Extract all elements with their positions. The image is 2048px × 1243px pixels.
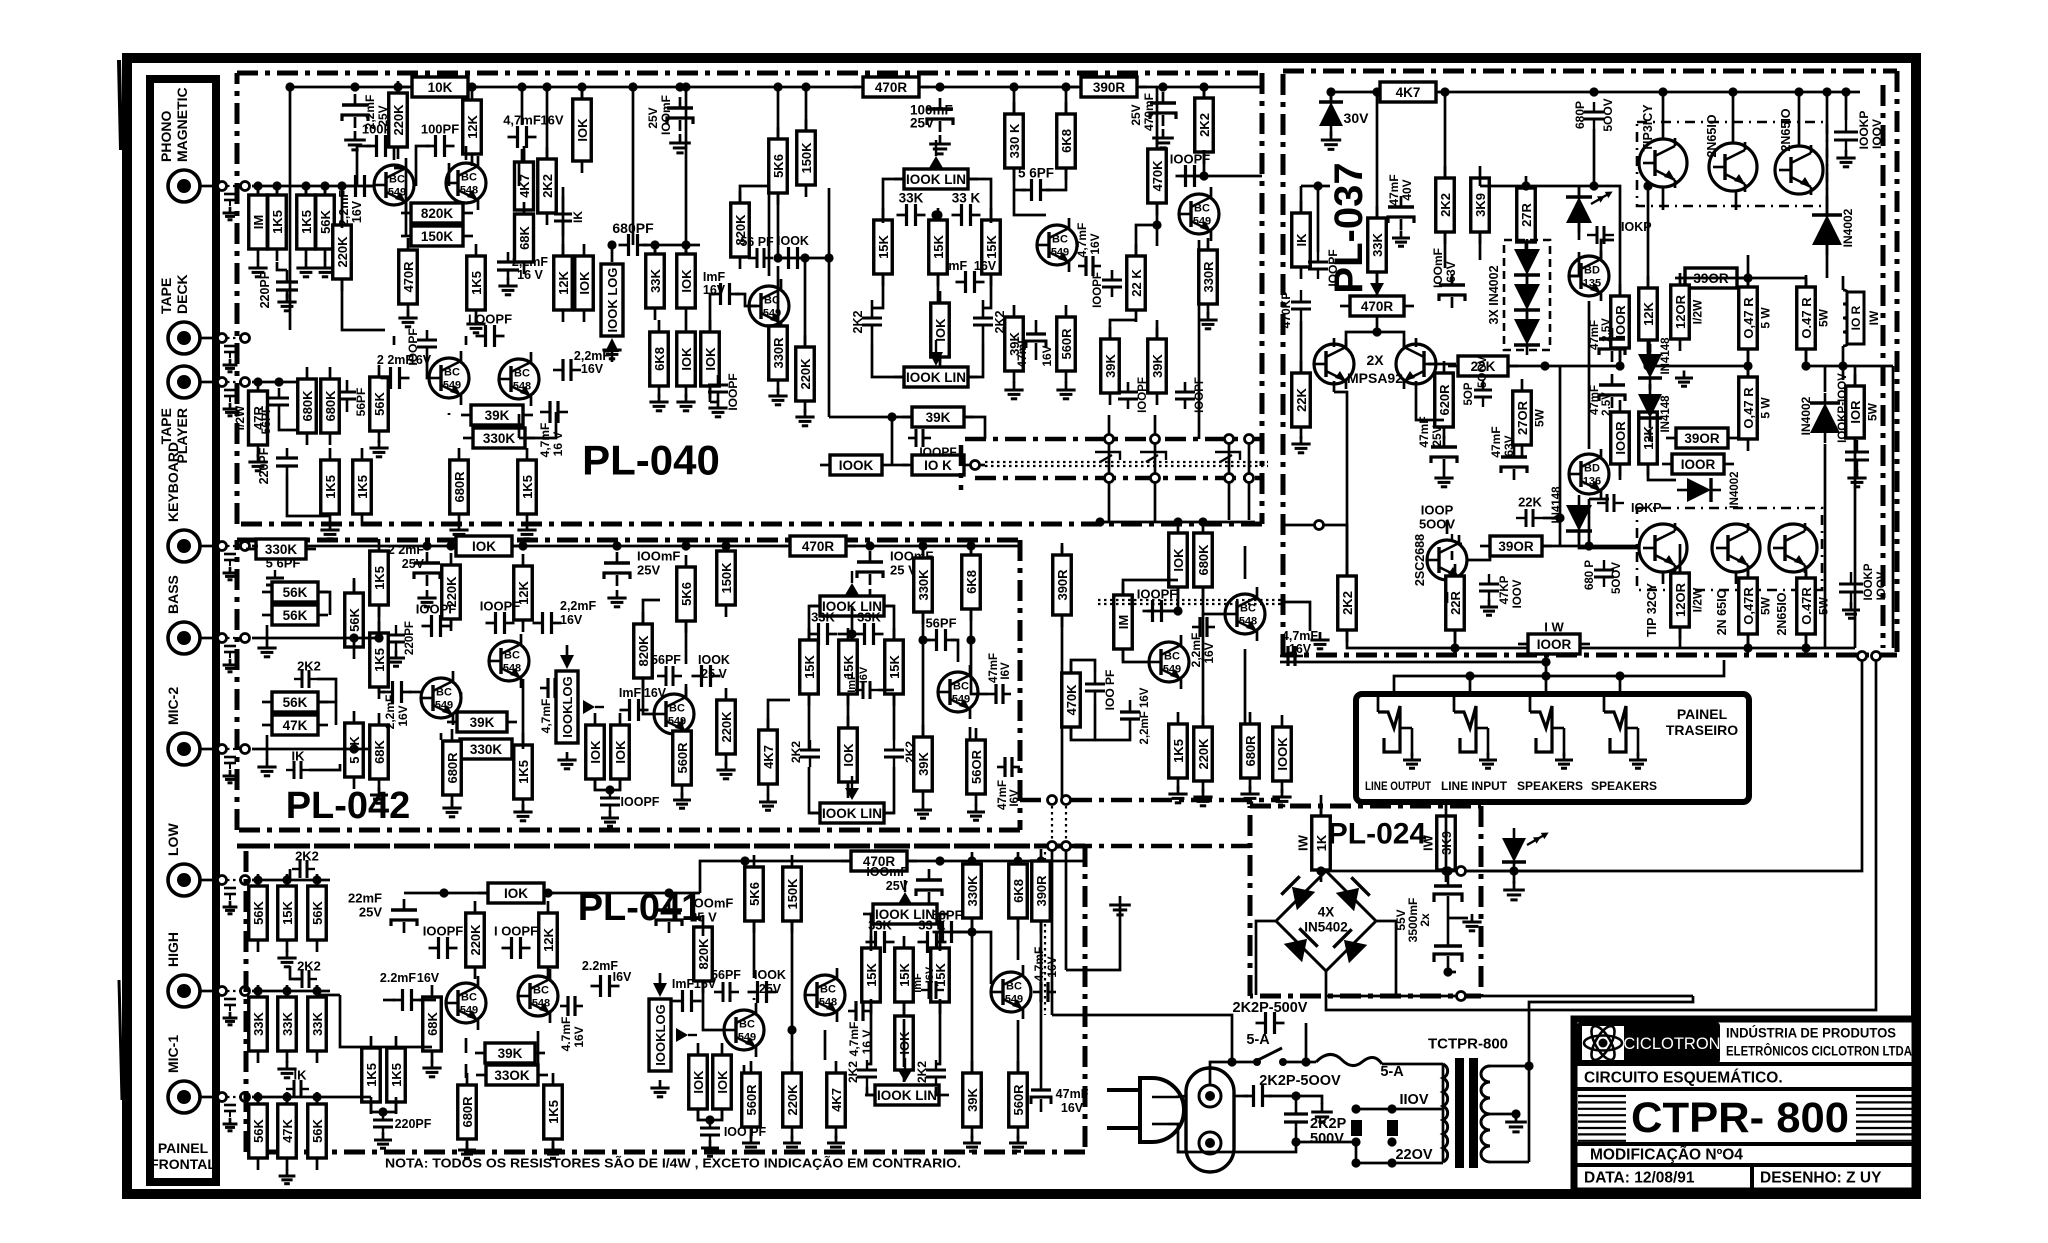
junction [681,541,690,550]
capacitor 56PF [925,616,956,652]
svg-text:220K: 220K [798,358,813,390]
resistor 470R [853,77,929,97]
connector pin [241,182,250,191]
resistor IOOR [1611,284,1630,360]
svg-text:220K: 220K [1196,738,1211,770]
wire [1845,92,1848,120]
resistor 39K [1101,327,1120,405]
arrow [898,880,912,904]
resistor 12K [463,88,482,166]
svg-text:2K2: 2K2 [846,1061,860,1083]
resistor 680R [450,448,469,526]
capacitor C1mF 16V [673,990,702,1012]
wire [937,932,991,984]
resistor 330K [450,739,522,759]
wire [1306,1061,1316,1064]
svg-text:BC: BC [533,985,549,997]
wire [892,464,908,467]
wire [968,343,983,377]
capacitor 47mF 16V [997,757,1020,777]
svg-text:4,7mF: 4,7mF [1032,947,1046,982]
wire [257,186,260,194]
junction [350,82,359,91]
resistor 390R [1053,543,1072,627]
wire [1355,1142,1358,1163]
ground [601,811,619,827]
svg-text:25V: 25V [1129,104,1143,125]
svg-text:2K2: 2K2 [789,741,803,763]
capacitor C4.7mF [508,126,537,148]
svg-text:56K: 56K [251,900,266,924]
resistor 15K [931,936,950,1014]
label PAINEL TRASEIRO [1666,706,1738,738]
transistor [1639,523,1687,573]
svg-text:BD: BD [1584,265,1600,277]
capacitor 4,7mF 16V [540,678,563,698]
wire [1747,278,1750,287]
wire [1428,363,1456,366]
resistor IOK [677,242,696,320]
svg-text:27R: 27R [1519,202,1534,226]
svg-text:549: 549 [388,187,406,199]
svg-text:12OR: 12OR [1673,294,1688,329]
wire [1180,150,1204,176]
resistor 15K [874,208,893,286]
resistor 39K [963,1061,982,1139]
junction [1095,517,1104,526]
wire [1140,86,1262,89]
svg-text:22K: 22K [1294,387,1309,411]
wire [1805,634,1808,648]
wire [1356,1162,1443,1165]
wire [1601,240,1614,259]
capacitor 10KP [1597,494,1624,512]
wire [1685,277,1748,280]
svg-text:548: 548 [532,998,550,1010]
svg-text:IOOPF: IOOPF [621,795,660,809]
resistor 56K [308,1092,327,1170]
junction [1372,87,1381,96]
junction [1443,967,1452,976]
svg-text:16V: 16V [1040,345,1054,366]
wire [685,684,688,699]
label KEYBOARD [165,442,181,522]
label PL-040 [582,437,720,484]
wire [378,606,381,630]
wire [1231,1023,1234,1062]
output transistor group boundary [1637,122,1827,206]
resistor 220K [717,688,736,766]
junction [966,635,975,644]
wire [838,633,854,636]
junction [1173,606,1182,615]
junction [1584,541,1593,550]
capacitor 33K [809,610,838,646]
svg-text:BC: BC [444,367,460,379]
resistor R1K 1W [1312,804,1331,882]
wire [1545,676,1548,694]
ground [315,260,334,277]
svg-text:12K: 12K [465,114,480,138]
title row divider [1574,1062,1915,1066]
input jack TAPE PLAYER [168,366,200,398]
wire [353,638,356,648]
svg-text:33K: 33K [648,268,663,292]
capacitor C2.2mF 16V [393,989,422,1011]
ground [422,1060,441,1077]
connector pin [1457,867,1466,876]
wire [1580,647,1680,650]
junction [378,1107,387,1116]
wire [1466,995,1693,998]
svg-text:680R: 680R [445,752,460,784]
wire [1300,321,1303,372]
svg-text:IK: IK [571,211,585,223]
wire [370,1097,373,1103]
wire [1268,1096,1322,1104]
svg-text:BC: BC [514,368,530,380]
bus [1071,798,1280,803]
resistor IOOK LIN [894,169,978,189]
junction [1440,87,1449,96]
wire [394,168,406,213]
wire [252,748,368,751]
capacitor 56PF [338,380,356,412]
svg-text:549: 549 [738,1032,756,1044]
wire [884,767,894,813]
transistor [1639,138,1687,188]
wire [257,1097,260,1104]
wire [1376,92,1379,217]
resistor IM [1114,583,1133,661]
svg-text:ImF: ImF [912,973,924,993]
resistor 330R [1199,238,1218,316]
wire [200,1096,216,1099]
capacitor 56PF [714,982,739,1002]
wire [342,280,385,330]
resistor IO K [902,455,974,475]
svg-text:549: 549 [435,700,453,712]
transistor BC549 [1037,218,1077,272]
label PHONO MAGNETIC [158,87,190,162]
junction [1009,82,1018,91]
wire [1469,676,1472,694]
svg-text:IOK: IOK [841,743,856,767]
svg-text:CIRCUITO ESQUEMÁTICO.: CIRCUITO ESQUEMÁTICO. [1584,1070,1783,1087]
resistor IOOR [1611,400,1630,476]
svg-text:33K: 33K [251,1011,266,1035]
ground [277,950,296,967]
ground [602,342,621,359]
wire [471,86,860,89]
junction [1589,87,1598,96]
svg-text:56PF: 56PF [711,968,741,982]
svg-text:390R: 390R [1055,569,1070,601]
wire [1448,917,1468,920]
transistor [1314,339,1354,389]
svg-text:2,2mF: 2,2mF [1189,633,1203,668]
junction [1199,171,1208,180]
resistor 5K6 [745,855,764,933]
label LINE OUTPUT [1365,779,1432,793]
wire [936,999,940,1064]
wire [1321,871,1326,873]
input jack BASS [168,622,200,654]
svg-text:MODIFICAÇÃO NºO4: MODIFICAÇÃO NºO4 [1590,1146,1743,1164]
label PL-042 [286,785,411,827]
model name CTPR-800 [1626,1094,1856,1142]
ground [513,804,532,821]
logo text CICLOTRON [1623,1035,1720,1053]
capacitor 22K [1516,509,1543,527]
svg-text:560R: 560R [1059,328,1074,360]
svg-text:DATA: 12/08/91: DATA: 12/08/91 [1584,1170,1695,1187]
svg-text:5OOV: 5OOV [1477,356,1489,388]
wire [1255,930,1258,995]
svg-text:BC: BC [504,650,520,662]
wire [1100,521,1255,524]
input jack TAPE DECK [168,322,200,354]
resistor 2K2 [538,147,557,225]
wire [1679,544,1682,572]
wire [1648,430,1650,440]
wire [1014,169,1046,215]
transistor BC549 [429,351,469,405]
wire [1178,1142,1296,1152]
svg-text:IOOmF: IOOmF [866,865,908,879]
capacitor 1K [286,749,309,780]
wire [1331,91,1377,94]
wire [884,606,894,639]
svg-text:IM: IM [251,215,266,229]
wire [1154,444,1157,473]
connector pin [1105,474,1114,483]
transistor [1769,523,1817,573]
arrow [845,571,859,595]
wire [1071,703,1095,740]
svg-text:TIP 32CY: TIP 32CY [1645,582,1659,637]
svg-text:IOOK: IOOK [839,458,874,473]
resistor 5K6 [769,127,788,205]
jack socket LINE INPUT [1454,706,1488,756]
svg-text:560R: 560R [1011,1084,1026,1116]
resistor 27R [1517,176,1536,254]
ground [783,1136,801,1152]
svg-text:1K5: 1K5 [372,566,387,590]
resistor IOK [586,713,605,791]
wire [266,735,269,760]
resistor 470K [1062,661,1081,739]
svg-text:BC: BC [461,172,477,184]
wire [1330,92,1333,103]
transistor BC549 [421,671,461,725]
svg-text:PAINEL: PAINEL [158,1140,209,1156]
wire [286,991,289,997]
wire [460,692,463,698]
svg-text:5W: 5W [1816,308,1830,327]
ground [398,310,417,327]
wire [1376,317,1379,332]
wire [1542,545,1560,548]
wire [513,545,787,548]
junction [847,629,856,638]
svg-text:2N65IO: 2N65IO [1705,114,1719,157]
svg-text:4K7: 4K7 [1396,85,1421,100]
capacitor IOOPF [480,599,521,635]
ground [1403,753,1421,769]
wire [317,702,336,725]
resistor 470K [1148,137,1167,215]
svg-text:390R: 390R [1093,80,1126,95]
wire [317,679,336,702]
resistor IOOK LIN [863,904,947,924]
wire [1662,92,1665,139]
junction [1301,1057,1310,1066]
resistor 39OR [1480,536,1552,556]
junction [1511,1109,1520,1118]
ground [919,907,938,924]
svg-text:220PF: 220PF [258,271,272,308]
transistor BC549 [446,976,486,1030]
svg-text:I OOPF: I OOPF [494,924,538,939]
svg-text:47K: 47K [283,718,308,733]
wire [1040,921,1043,1080]
svg-text:I/2W: I/2W [1690,587,1704,612]
wire [316,880,319,886]
ground [1310,632,1329,649]
svg-text:680 P: 680 P [1584,560,1596,590]
svg-text:IOK: IOK [472,539,496,554]
resistor 15K [800,628,819,706]
wire [353,578,356,592]
capacitor [391,899,417,933]
resistor IOK [713,1043,732,1121]
svg-text:SPEAKERS: SPEAKERS [1591,779,1657,793]
resistor 220K [796,335,815,413]
resistor 150K [783,855,802,933]
resistor 4K7 [759,718,778,796]
capacitor [1599,328,1625,362]
wire [537,1031,540,1075]
svg-text:2K2P: 2K2P [1310,1116,1347,1132]
resistor 27OR [1513,379,1547,457]
wire [805,87,808,130]
svg-text:15K: 15K [984,234,999,258]
ground [369,440,388,457]
svg-text:ImF: ImF [619,686,642,700]
svg-text:220K: 220K [391,104,406,136]
capacitor C100K [692,665,721,687]
connector pin [218,182,227,191]
svg-text:KEYBOARD: KEYBOARD [165,442,181,522]
wire [1479,233,1482,260]
capacitor [1388,196,1414,230]
resistor 56K [370,365,389,443]
junction [1841,87,1850,96]
svg-text:2 2mF: 2 2mF [388,543,424,557]
svg-text:TAPE: TAPE [158,278,174,314]
ground [517,522,536,539]
capacitor 100PF [1308,252,1328,279]
svg-text:16V: 16V [396,705,410,726]
junction [664,888,673,897]
ground [967,805,985,821]
label MODIFICACAO No04 [1590,1146,1743,1164]
resistor IOK [701,320,720,398]
ground [1009,1136,1027,1152]
resistor 620R [1435,361,1454,439]
junction [1372,327,1381,336]
junction [918,541,927,550]
wire [808,695,811,750]
wire [1095,731,1130,740]
svg-text:470R: 470R [1361,299,1394,314]
svg-text:620R: 620R [1437,384,1452,416]
resistor 56K [249,1092,268,1170]
transistor BC549 [991,965,1031,1019]
note text [385,1156,961,1171]
svg-text:6K8: 6K8 [1059,129,1074,153]
junction [918,635,927,644]
connector pin [218,987,227,996]
resistor IK [1292,201,1311,279]
svg-text:549: 549 [1051,247,1069,259]
junction [312,986,321,995]
bus [965,437,1262,442]
wire [1648,464,1676,480]
svg-text:680R: 680R [460,1096,475,1128]
svg-text:IW: IW [1296,834,1311,851]
junction [1509,866,1518,875]
wire [252,185,372,188]
wire [227,337,240,339]
wire [290,966,300,979]
wire [200,337,216,340]
svg-text:56PF: 56PF [354,388,368,417]
svg-text:2,2mF: 2,2mF [383,695,397,730]
wire [1445,870,1448,873]
wire [379,688,385,692]
wire [893,695,896,740]
svg-text:IN4002: IN4002 [1841,208,1855,247]
ground [1675,371,1693,387]
svg-text:330K: 330K [470,742,503,757]
svg-text:15K: 15K [864,962,879,986]
wire [937,275,940,302]
svg-text:56K: 56K [283,608,308,623]
svg-text:548: 548 [503,663,521,675]
svg-text:2K2: 2K2 [540,174,555,198]
resistor 15K [895,936,914,1014]
resistor 1K5 [1169,712,1188,790]
svg-text:25V: 25V [1430,425,1444,446]
svg-text:2,2mF: 2,2mF [560,599,596,613]
wire [970,610,973,640]
wire [1123,650,1149,662]
output transistor group boundary [1637,508,1822,590]
connector hook [1215,452,1240,462]
svg-text:39K: 39K [470,715,495,730]
wire [872,275,883,308]
capacitor [604,552,630,586]
wire [1680,647,1855,650]
diode IN4002 [1677,478,1721,502]
wire [1444,92,1447,177]
junction [681,240,690,249]
arrow [929,340,943,366]
block PL-041 boundary [246,846,1085,1152]
svg-text:5W: 5W [1816,596,1830,615]
